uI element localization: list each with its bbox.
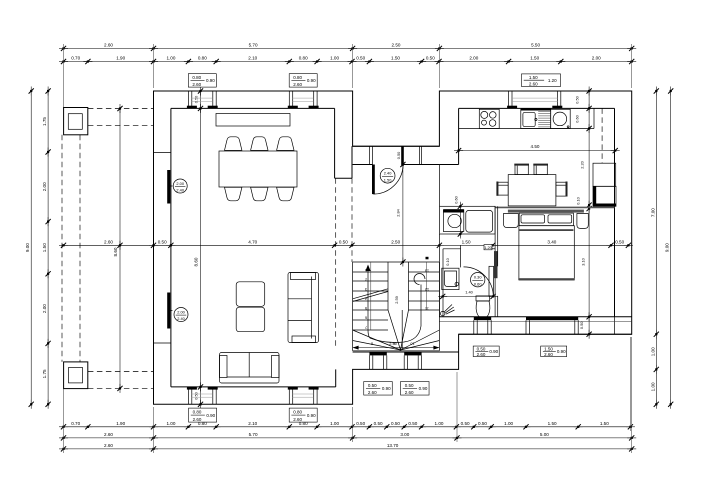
wc shower screen xyxy=(460,245,462,267)
svg-text:2.00: 2.00 xyxy=(176,181,184,186)
entry door jamb left xyxy=(369,146,371,164)
svg-text:0.50: 0.50 xyxy=(396,151,401,159)
stove 4-burner xyxy=(479,109,499,128)
svg-text:0.90: 0.90 xyxy=(206,413,215,418)
svg-text:9.00: 9.00 xyxy=(665,243,670,252)
svg-text:2.60: 2.60 xyxy=(192,82,201,87)
svg-text:2.10: 2.10 xyxy=(248,421,257,426)
svg-text:2.60: 2.60 xyxy=(104,432,113,437)
svg-text:1.00: 1.00 xyxy=(435,421,444,426)
bedroom radiator bar xyxy=(494,251,498,278)
svg-text:2.60: 2.60 xyxy=(544,352,553,357)
wc door swing arc xyxy=(464,267,494,297)
svg-text:0.50: 0.50 xyxy=(356,56,365,61)
left wall window upper label xyxy=(173,179,187,193)
dining chairs top xyxy=(225,137,242,151)
window kitchen 1.50 xyxy=(508,91,510,108)
svg-text:1.50: 1.50 xyxy=(42,243,47,252)
interior face living bottom xyxy=(171,386,336,388)
kitchen chair top-1 xyxy=(515,165,528,175)
window bottom-1 label box xyxy=(189,408,217,422)
porch dashed edge top xyxy=(88,108,154,110)
stairwell outline xyxy=(353,261,440,263)
kitchen chair right xyxy=(556,182,566,196)
wc top partition xyxy=(443,248,461,250)
svg-text:2.84: 2.84 xyxy=(396,208,401,216)
svg-text:2.60: 2.60 xyxy=(104,239,113,244)
window top-2 label box xyxy=(289,74,317,87)
svg-text:0.50: 0.50 xyxy=(615,239,624,244)
bed pillow band xyxy=(519,213,573,226)
svg-text:1.75: 1.75 xyxy=(42,117,47,126)
svg-text:1.50: 1.50 xyxy=(391,56,400,61)
dimension row bottom-C (2.60 / 13.70) xyxy=(64,448,632,450)
dimension interior vertical 8.00 with 0.50 walls xyxy=(200,91,202,404)
svg-text:0.70: 0.70 xyxy=(71,56,80,61)
svg-text:1.90: 1.90 xyxy=(116,421,125,426)
stair up-path curl xyxy=(414,274,425,285)
svg-text:0.50: 0.50 xyxy=(575,95,580,103)
svg-text:1.50: 1.50 xyxy=(529,75,538,80)
dimension hall vertical 2.84 xyxy=(402,165,404,263)
svg-text:2.60: 2.60 xyxy=(368,390,377,395)
sofa right 3-seat xyxy=(288,273,319,343)
stair winder fan xyxy=(353,330,401,350)
stair treads right flight xyxy=(409,271,440,273)
svg-text:1.50: 1.50 xyxy=(530,56,539,61)
kitchen fridge recess dashed xyxy=(601,108,603,163)
svg-text:2.60: 2.60 xyxy=(405,390,414,395)
kitchen tall unit 1 xyxy=(593,163,616,186)
svg-text:2.60: 2.60 xyxy=(293,82,302,87)
svg-text:4.50: 4.50 xyxy=(531,144,540,149)
nightstand left xyxy=(504,214,519,228)
svg-text:5.70: 5.70 xyxy=(249,42,258,47)
laundry counter xyxy=(466,210,493,232)
svg-text:2.20: 2.20 xyxy=(580,160,585,168)
interior face top-left section xyxy=(171,107,335,109)
svg-text:0.90: 0.90 xyxy=(206,78,215,83)
sofa bottom 2-seat xyxy=(220,353,280,384)
left wall window bar lower xyxy=(167,293,170,329)
svg-text:3.40: 3.40 xyxy=(547,239,556,244)
svg-text:1.50: 1.50 xyxy=(548,421,557,426)
svg-text:0.50: 0.50 xyxy=(478,421,487,426)
window bottom-2 label box xyxy=(289,408,317,422)
porch column top-left xyxy=(64,108,88,135)
stair rail lines xyxy=(370,262,372,330)
svg-text:2.60: 2.60 xyxy=(529,82,538,87)
kitchen chair left xyxy=(498,182,508,195)
window bottom-1 0.80 xyxy=(187,387,189,404)
svg-text:0.90: 0.90 xyxy=(419,386,428,391)
window kitchen label box xyxy=(522,74,561,87)
sideboard dining xyxy=(216,114,290,127)
svg-text:0.50: 0.50 xyxy=(405,383,414,388)
nightstand right xyxy=(577,214,588,229)
svg-text:1: 1 xyxy=(365,268,367,273)
svg-text:3: 3 xyxy=(365,287,367,292)
svg-text:0.60: 0.60 xyxy=(453,195,458,203)
bed body xyxy=(519,226,574,280)
wc left wall xyxy=(438,234,440,317)
stair center stringers xyxy=(387,262,389,310)
svg-text:7.00: 7.00 xyxy=(650,208,655,217)
svg-text:0.70: 0.70 xyxy=(71,421,80,426)
stair break line xyxy=(353,292,388,302)
window bottom-2 0.80 xyxy=(288,387,290,404)
porch dashed edge left xyxy=(61,135,63,362)
svg-text:9: 9 xyxy=(393,341,395,346)
svg-text:1.00: 1.00 xyxy=(330,56,339,61)
bedroom bottom wall xyxy=(439,316,631,318)
svg-text:2.40: 2.40 xyxy=(176,188,184,193)
svg-text:1.00: 1.00 xyxy=(650,347,655,356)
wc floor drain symbol xyxy=(441,311,445,315)
kitchen counter right edge xyxy=(593,108,595,128)
svg-text:2: 2 xyxy=(365,278,367,283)
armchair 1 xyxy=(236,282,265,307)
svg-text:0.50: 0.50 xyxy=(193,95,198,103)
svg-text:1.20: 1.20 xyxy=(548,78,557,83)
dining chairs bottom xyxy=(225,187,242,201)
dimension column left-2 (1.75 / 2.00 / 1.50 / 2.00 / 1.75) xyxy=(47,91,49,404)
svg-text:0.80: 0.80 xyxy=(293,410,302,415)
dimension row bottom-A (0.70 ... 1.50) xyxy=(64,426,631,428)
extension lines bottom xyxy=(63,389,65,453)
dimension wc 1.40 xyxy=(443,295,493,297)
svg-text:0.10: 0.10 xyxy=(445,257,450,265)
svg-text:2.00: 2.00 xyxy=(469,56,478,61)
svg-text:5: 5 xyxy=(365,306,367,311)
bed blanket line xyxy=(519,229,573,231)
dimension row bottom-B (2.60 / 5.70 / 3.00 / 5.00) xyxy=(64,437,632,439)
dimension column right-1 (7.00 / 1.00 / 1.00) xyxy=(655,91,657,404)
svg-text:2.10: 2.10 xyxy=(248,56,257,61)
window stair-bay label boxes xyxy=(364,382,393,396)
washing machine xyxy=(443,210,463,232)
extension lines top xyxy=(63,44,65,108)
dimension row top-2 (0.70 ... 2.00) xyxy=(64,61,632,63)
svg-text:12: 12 xyxy=(425,287,429,292)
svg-text:3.00: 3.00 xyxy=(400,432,409,437)
hall edge line xyxy=(438,165,440,207)
svg-text:0.10: 0.10 xyxy=(576,196,581,204)
svg-text:1.50: 1.50 xyxy=(462,239,471,244)
svg-text:1.00: 1.00 xyxy=(650,382,655,391)
exterior wall outline xyxy=(154,91,632,404)
svg-text:0.50: 0.50 xyxy=(477,346,486,351)
left wall window bar upper xyxy=(167,170,170,204)
svg-text:1.50: 1.50 xyxy=(544,346,553,351)
stair top marker xyxy=(426,257,429,260)
svg-text:0.50: 0.50 xyxy=(391,421,400,426)
porch dashed edge bottom xyxy=(88,371,154,373)
bedroom bottom wall outer line xyxy=(459,333,632,335)
window stair-bay-1 0.50 xyxy=(369,352,386,355)
svg-text:1.00: 1.00 xyxy=(330,421,339,426)
svg-text:1.20: 1.20 xyxy=(484,245,492,250)
svg-text:2.50: 2.50 xyxy=(391,239,400,244)
svg-text:0.50: 0.50 xyxy=(579,321,584,329)
sink unit xyxy=(521,109,551,128)
dimension row top-1 (2.60 / 5.70 / 2.50 / 5.50) xyxy=(64,47,632,49)
entry door label circle 2.40/1.50 xyxy=(380,168,395,183)
dimension stairs 2.50 xyxy=(353,347,440,349)
svg-text:1.00: 1.00 xyxy=(504,421,513,426)
svg-text:2.60: 2.60 xyxy=(293,417,302,422)
svg-text:0.60: 0.60 xyxy=(575,114,580,122)
svg-text:2.00: 2.00 xyxy=(42,182,47,191)
svg-text:7: 7 xyxy=(365,325,367,330)
svg-text:6: 6 xyxy=(365,316,367,321)
dimension column right-2 (9.00) xyxy=(670,91,672,404)
svg-text:2.59: 2.59 xyxy=(394,296,399,304)
pillow right xyxy=(548,215,572,223)
svg-text:1.90: 1.90 xyxy=(116,56,125,61)
svg-text:0.90: 0.90 xyxy=(307,413,316,418)
svg-text:0.80: 0.80 xyxy=(299,56,308,61)
svg-text:1.00: 1.00 xyxy=(166,56,175,61)
left wall window lower label xyxy=(174,308,188,322)
svg-text:0.50: 0.50 xyxy=(408,421,417,426)
svg-text:2.40: 2.40 xyxy=(384,171,392,176)
pillow left xyxy=(521,215,545,223)
svg-text:0.90: 0.90 xyxy=(489,349,498,354)
svg-text:0.60: 0.60 xyxy=(474,281,482,286)
svg-text:0.50: 0.50 xyxy=(339,239,348,244)
svg-text:0.50: 0.50 xyxy=(461,421,470,426)
window top-1 label box xyxy=(188,74,216,87)
svg-text:0.50: 0.50 xyxy=(426,56,435,61)
svg-text:5.70: 5.70 xyxy=(249,432,258,437)
kitchen chair top-2 xyxy=(534,165,547,175)
bedroom left wall xyxy=(494,206,496,316)
svg-text:1.40: 1.40 xyxy=(465,290,473,295)
svg-text:0.80: 0.80 xyxy=(192,75,201,80)
window bedroom label box xyxy=(541,346,567,357)
svg-text:0.90: 0.90 xyxy=(307,78,316,83)
bed headboard xyxy=(508,210,584,213)
stair bay bottom wall xyxy=(353,351,459,353)
svg-text:2.60: 2.60 xyxy=(104,42,113,47)
window bedroom 1.50 xyxy=(526,317,578,320)
svg-text:2.00: 2.00 xyxy=(592,56,601,61)
wc door leaf xyxy=(489,266,494,296)
svg-text:0.50: 0.50 xyxy=(368,383,377,388)
kitchen tall unit 2 xyxy=(593,186,616,206)
svg-text:0.90: 0.90 xyxy=(382,386,391,391)
svg-text:0.50: 0.50 xyxy=(158,239,167,244)
svg-text:0.50: 0.50 xyxy=(356,421,365,426)
svg-text:2.50: 2.50 xyxy=(392,42,401,47)
svg-text:0.90: 0.90 xyxy=(557,349,566,354)
dimension middle horizontal row (2.60/0.50/4.70/0.50/2.50/1.50/3.40/0.50) xyxy=(64,244,629,246)
dining table xyxy=(219,151,297,187)
left wall cross line lower xyxy=(154,342,171,344)
svg-text:8.60: 8.60 xyxy=(193,257,198,266)
laundry dim 0.60 xyxy=(459,203,461,237)
svg-text:5.00: 5.00 xyxy=(540,432,549,437)
svg-text:0.80: 0.80 xyxy=(193,410,202,415)
kitchen interior face right xyxy=(614,108,616,316)
left wall cross line upper xyxy=(154,152,171,154)
svg-text:5.50: 5.50 xyxy=(531,42,540,47)
svg-text:0.30: 0.30 xyxy=(474,275,482,280)
svg-text:9.00: 9.00 xyxy=(25,243,30,252)
kitchen counter xyxy=(459,128,594,130)
svg-text:1.50: 1.50 xyxy=(384,177,392,182)
svg-text:2.60: 2.60 xyxy=(193,417,202,422)
wc label circle 0.30/0.60 xyxy=(471,273,485,287)
svg-text:13.70: 13.70 xyxy=(387,443,399,448)
svg-text:2.60: 2.60 xyxy=(477,352,486,357)
svg-text:2.00: 2.00 xyxy=(42,304,47,313)
divider wall living/hall xyxy=(334,108,336,178)
svg-text:2.00: 2.00 xyxy=(177,309,185,314)
svg-text:1.75: 1.75 xyxy=(42,369,47,378)
kitchen/bedroom partition xyxy=(495,206,614,208)
entry door swing arc xyxy=(373,165,403,195)
svg-text:13: 13 xyxy=(425,269,429,274)
dimension column left-1 (9.00) xyxy=(30,91,32,404)
interior face living bottom corner xyxy=(335,369,337,387)
window wc 0.50 xyxy=(474,317,491,320)
kitchen table xyxy=(508,175,556,206)
dimension porch vertical 8.05 xyxy=(119,109,121,389)
svg-text:0.50: 0.50 xyxy=(194,391,199,399)
wc toilet xyxy=(476,296,490,301)
kitchen interior face top xyxy=(459,107,615,109)
window wc label box xyxy=(473,346,499,357)
svg-text:1.50: 1.50 xyxy=(600,421,609,426)
svg-text:3.10: 3.10 xyxy=(581,257,586,265)
svg-text:2.40: 2.40 xyxy=(177,316,185,321)
svg-text:4.70: 4.70 xyxy=(248,239,257,244)
window top-1 0.80 xyxy=(187,91,189,108)
svg-text:8.60: 8.60 xyxy=(113,247,118,256)
interior face left wall xyxy=(170,108,172,387)
round basin unit xyxy=(551,109,571,128)
svg-text:1.00: 1.00 xyxy=(166,421,175,426)
kitchen corner pier xyxy=(458,108,460,164)
drainer stripes xyxy=(538,111,550,113)
svg-text:11: 11 xyxy=(425,307,429,312)
window top-2 0.80 xyxy=(288,91,290,108)
entry door leaf xyxy=(372,165,375,195)
wc washbasin xyxy=(442,268,459,289)
armchair 2 xyxy=(236,307,265,332)
stair treads left flight xyxy=(353,271,388,273)
svg-text:8: 8 xyxy=(371,342,373,347)
dimension right interior chain 0.50/0.60/2.20/0.10/3.10/0.50 xyxy=(588,91,590,334)
svg-text:2.60: 2.60 xyxy=(104,443,113,448)
divider dashed opening xyxy=(335,178,337,349)
entry door jamb right xyxy=(419,146,421,164)
laundry cabinet xyxy=(440,206,496,234)
svg-text:0.80: 0.80 xyxy=(198,56,207,61)
entry wall band xyxy=(353,145,440,147)
dimension kitchen 4.50 xyxy=(459,150,616,152)
svg-text:0.80: 0.80 xyxy=(293,75,302,80)
wc 1.20 label box xyxy=(484,245,492,250)
porch column bottom-left xyxy=(64,362,88,389)
window stair-bay-2 0.50 xyxy=(404,352,421,355)
svg-text:0.50: 0.50 xyxy=(374,421,383,426)
stair up-path lines xyxy=(420,285,422,327)
